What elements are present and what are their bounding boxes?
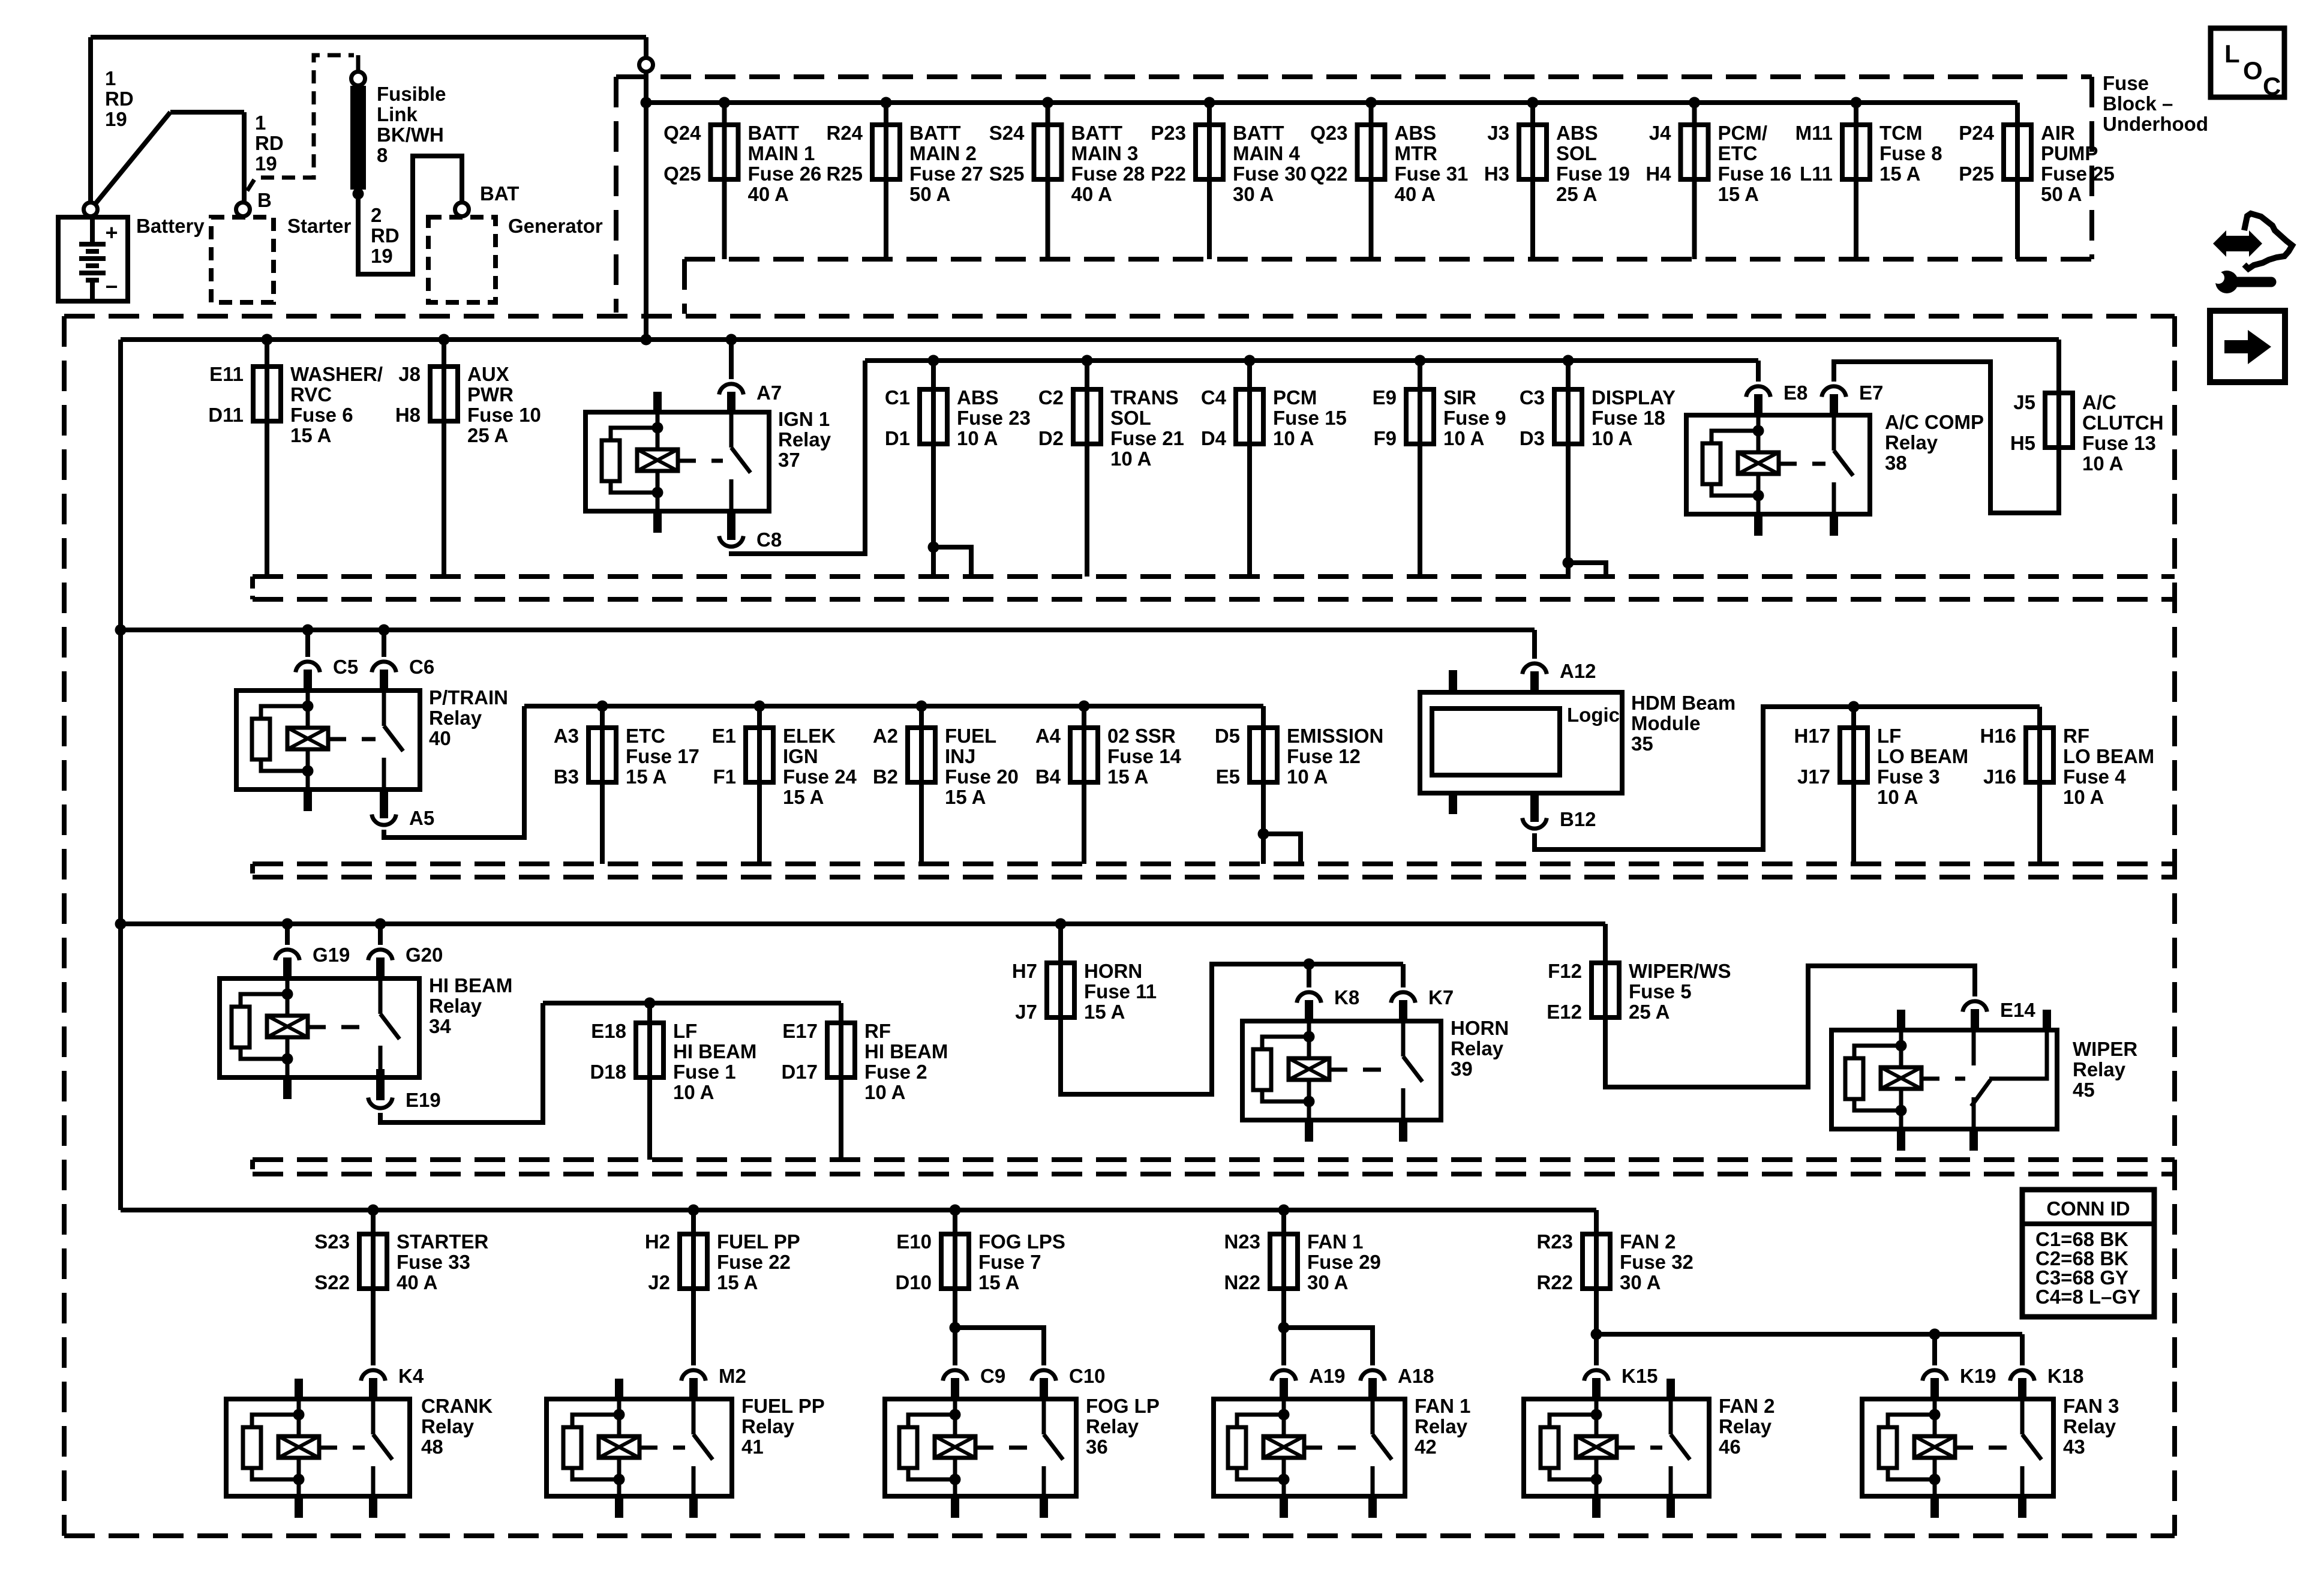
wire F18 output branch bbox=[1568, 563, 1606, 577]
svg-text:D1: D1 bbox=[885, 427, 910, 449]
svg-text:FAN 3: FAN 3 bbox=[2063, 1395, 2119, 1417]
svg-text:G20: G20 bbox=[406, 944, 443, 966]
svg-text:C3: C3 bbox=[1520, 386, 1545, 409]
wire to K7 bbox=[1401, 964, 1406, 987]
svg-text:S23: S23 bbox=[314, 1230, 350, 1253]
svg-text:1: 1 bbox=[255, 112, 266, 134]
svg-text:R24: R24 bbox=[826, 122, 863, 144]
relay K42 FAN 1 bbox=[1214, 1399, 1405, 1518]
pin K18 stub bbox=[2018, 1378, 2026, 1401]
pin FAN2 switch top stub bbox=[1667, 1379, 1675, 1401]
connector K7 bbox=[1391, 992, 1416, 1003]
wire fusible link top bbox=[356, 55, 361, 71]
wire to starter horizontal bbox=[170, 110, 244, 115]
svg-text:15 A: 15 A bbox=[717, 1271, 758, 1293]
svg-text:Fuse 28: Fuse 28 bbox=[1071, 163, 1145, 185]
svg-text:MAIN 3: MAIN 3 bbox=[1071, 142, 1139, 164]
svg-text:HI BEAM: HI BEAM bbox=[864, 1040, 948, 1062]
section separator row2/3 lower bbox=[253, 597, 2175, 602]
wire main feed riser bbox=[644, 37, 648, 340]
fuse block section1 bottom border bbox=[684, 257, 2092, 262]
wire F15 output bbox=[1247, 444, 1252, 577]
svg-text:Fuse 23: Fuse 23 bbox=[957, 407, 1031, 429]
svg-text:E8: E8 bbox=[1783, 382, 1807, 404]
svg-text:Battery: Battery bbox=[136, 215, 205, 237]
svg-text:Module: Module bbox=[1631, 712, 1700, 734]
svg-text:IGN: IGN bbox=[783, 745, 818, 767]
connector C6 bbox=[372, 662, 397, 673]
connector A18 bbox=[1361, 1370, 1385, 1381]
wire F5 to E14 bbox=[1605, 966, 1975, 1087]
fuse F11 HORN bbox=[1012, 924, 1157, 1023]
svg-text:Q24: Q24 bbox=[663, 122, 701, 144]
fuse F5 WIPER/WS bbox=[1547, 924, 1731, 1023]
svg-text:BATT: BATT bbox=[909, 122, 961, 144]
svg-text:N22: N22 bbox=[1224, 1271, 1260, 1293]
relay K37 IGN 1 bbox=[585, 392, 769, 533]
service icon: wrench bbox=[2207, 271, 2271, 293]
fuse F3 LF LO BEAM bbox=[1794, 701, 1968, 864]
svg-text:LO BEAM: LO BEAM bbox=[1877, 745, 1968, 767]
svg-text:E9: E9 bbox=[1373, 386, 1397, 409]
svg-text:H16: H16 bbox=[1980, 725, 2016, 747]
pin C9 stub bbox=[951, 1378, 959, 1401]
svg-text:R22: R22 bbox=[1536, 1271, 1573, 1293]
svg-text:46: 46 bbox=[1719, 1436, 1741, 1458]
svg-text:C8: C8 bbox=[756, 529, 782, 551]
svg-text:K8: K8 bbox=[1334, 986, 1359, 1008]
svg-text:D3: D3 bbox=[1520, 427, 1545, 449]
svg-text:Fuse 1: Fuse 1 bbox=[673, 1061, 736, 1083]
svg-text:P22: P22 bbox=[1151, 163, 1186, 185]
service icon: outline shape bbox=[2244, 214, 2292, 269]
svg-text:48: 48 bbox=[421, 1436, 443, 1458]
node battery + terminal bbox=[84, 203, 98, 217]
svg-text:10 A: 10 A bbox=[1443, 427, 1484, 449]
svg-text:Q25: Q25 bbox=[663, 163, 701, 185]
separator U-connector row3/4 bbox=[250, 864, 255, 877]
svg-text:H2: H2 bbox=[645, 1230, 670, 1253]
pin G20 stub bbox=[376, 957, 385, 981]
fuse F20 FUEL INJ bbox=[873, 701, 1019, 864]
junction F12 output bbox=[1258, 828, 1269, 840]
svg-text:19: 19 bbox=[371, 245, 393, 267]
svg-text:C10: C10 bbox=[1069, 1365, 1106, 1387]
wire F21 output bbox=[1085, 444, 1089, 577]
CONN ID table bbox=[2022, 1190, 2154, 1317]
wire to K18 bbox=[2020, 1334, 2025, 1365]
svg-text:H17: H17 bbox=[1794, 725, 1830, 747]
svg-text:15 A: 15 A bbox=[1718, 183, 1759, 205]
wire F7 down bbox=[953, 1289, 957, 1328]
wire to K15 bbox=[1594, 1334, 1599, 1365]
junction rail/bus3 bbox=[115, 625, 127, 636]
pin A19 stub bbox=[1280, 1378, 1288, 1401]
pin K4 stub bbox=[369, 1378, 377, 1401]
svg-text:40: 40 bbox=[429, 727, 451, 749]
pin E14 stub bbox=[1971, 1009, 1979, 1032]
svg-text:D18: D18 bbox=[590, 1061, 626, 1083]
wire left rail bbox=[118, 340, 123, 1210]
connector A7 bbox=[719, 384, 744, 395]
service icon: double arrow bbox=[2213, 230, 2262, 257]
svg-text:PCM/: PCM/ bbox=[1718, 122, 1768, 144]
svg-text:A/C: A/C bbox=[2082, 391, 2116, 413]
svg-text:BATT: BATT bbox=[1071, 122, 1123, 144]
svg-text:A7: A7 bbox=[756, 382, 782, 404]
svg-text:+: + bbox=[105, 220, 118, 245]
connector E8 bbox=[1746, 386, 1771, 397]
fuse F4 RF LO BEAM bbox=[1980, 707, 2154, 864]
wire to C9 bbox=[953, 1328, 957, 1365]
svg-text:Fuse 14: Fuse 14 bbox=[1107, 745, 1182, 767]
svg-text:MAIN 4: MAIN 4 bbox=[1233, 142, 1300, 164]
svg-text:−: − bbox=[105, 274, 118, 299]
wire F23 output branch bbox=[933, 547, 971, 577]
wire battery to starter diagonal bbox=[94, 112, 170, 205]
svg-text:10 A: 10 A bbox=[1592, 427, 1632, 449]
pin A18 stub bbox=[1368, 1378, 1377, 1401]
fuse F25 AIR PUMP bbox=[1959, 103, 2115, 259]
junction F23 output bbox=[928, 542, 939, 553]
svg-text:RD: RD bbox=[371, 224, 400, 247]
fuse F14 02 SSR bbox=[1035, 701, 1182, 864]
wire sub-bus3 bbox=[524, 704, 1263, 709]
separator U-connector row2/3 bbox=[250, 577, 255, 599]
pin C8 stub bbox=[727, 509, 735, 540]
svg-text:D2: D2 bbox=[1038, 427, 1064, 449]
svg-text:Relay: Relay bbox=[421, 1415, 475, 1437]
svg-text:Relay: Relay bbox=[2063, 1415, 2116, 1437]
svg-text:Fuse 8: Fuse 8 bbox=[1879, 142, 1942, 164]
pin E8 stub bbox=[1754, 394, 1762, 418]
svg-text:Block –: Block – bbox=[2103, 92, 2173, 115]
svg-text:B2: B2 bbox=[873, 766, 898, 788]
junction fan1 feed bbox=[1278, 1322, 1290, 1334]
svg-text:30 A: 30 A bbox=[1307, 1271, 1348, 1293]
svg-text:Fuse 7: Fuse 7 bbox=[978, 1251, 1041, 1273]
svg-text:BK/WH: BK/WH bbox=[377, 124, 444, 146]
wire E19 to hi-beam fuses bbox=[380, 1003, 543, 1122]
svg-text:ELEK: ELEK bbox=[783, 725, 836, 747]
svg-text:IGN 1: IGN 1 bbox=[778, 408, 830, 430]
svg-text:Fuse 18: Fuse 18 bbox=[1592, 407, 1665, 429]
pin B12 stub bbox=[1530, 791, 1539, 822]
svg-text:Fuse 27: Fuse 27 bbox=[909, 163, 983, 185]
wire A5 to sub-bus3 bbox=[384, 706, 524, 837]
junction bus3 x640 bbox=[379, 625, 390, 636]
junction F18 output bbox=[1563, 557, 1574, 569]
wire bus3 to C5 bbox=[305, 630, 310, 657]
svg-text:H5: H5 bbox=[2010, 432, 2035, 454]
svg-text:Generator: Generator bbox=[508, 215, 603, 237]
junction bus4 x479 bbox=[282, 918, 293, 930]
node generator BAT terminal bbox=[455, 203, 469, 217]
connector K8 bbox=[1297, 992, 1322, 1003]
wire F23 output bbox=[931, 444, 936, 577]
junction bus2 x1219 bbox=[726, 334, 737, 346]
svg-text:Fusible: Fusible bbox=[377, 83, 446, 105]
svg-text:2: 2 bbox=[371, 204, 382, 226]
fuse block section1 left border bbox=[614, 77, 618, 313]
svg-text:HI BEAM: HI BEAM bbox=[429, 974, 512, 996]
svg-text:K15: K15 bbox=[1622, 1365, 1658, 1387]
connector K18 bbox=[2010, 1370, 2035, 1381]
svg-text:SOL: SOL bbox=[1110, 407, 1151, 429]
svg-text:Relay: Relay bbox=[2073, 1058, 2126, 1080]
svg-text:43: 43 bbox=[2063, 1436, 2085, 1458]
svg-text:40 A: 40 A bbox=[748, 183, 789, 205]
svg-text:Fuse 24: Fuse 24 bbox=[783, 766, 857, 788]
svg-text:Fuse: Fuse bbox=[2103, 72, 2149, 94]
svg-text:A4: A4 bbox=[1035, 725, 1061, 747]
fuse block outer left border bbox=[62, 316, 67, 1536]
fuse F17 ETC bbox=[554, 701, 699, 864]
dashed wire to fusible link bbox=[247, 55, 354, 191]
pin A12 stub bbox=[1530, 671, 1539, 695]
svg-text:G19: G19 bbox=[313, 944, 350, 966]
wire F11 to horn relay bbox=[1061, 964, 1403, 1094]
svg-text:Fuse 10: Fuse 10 bbox=[467, 404, 541, 426]
pin A5 stub bbox=[380, 787, 388, 818]
svg-text:Fuse 32: Fuse 32 bbox=[1620, 1251, 1694, 1273]
svg-text:J16: J16 bbox=[1983, 766, 2016, 788]
svg-text:19: 19 bbox=[255, 152, 277, 175]
svg-text:FUEL PP: FUEL PP bbox=[717, 1230, 800, 1253]
svg-text:N23: N23 bbox=[1224, 1230, 1260, 1253]
svg-text:HI BEAM: HI BEAM bbox=[673, 1040, 756, 1062]
svg-text:PWR: PWR bbox=[467, 383, 514, 406]
wire F29 down bbox=[1281, 1289, 1286, 1328]
svg-text:45: 45 bbox=[2073, 1079, 2095, 1101]
svg-text:15 A: 15 A bbox=[626, 766, 666, 788]
connector A5 bbox=[372, 815, 397, 825]
svg-text:10 A: 10 A bbox=[2082, 452, 2123, 475]
svg-text:ETC: ETC bbox=[626, 725, 665, 747]
svg-text:36: 36 bbox=[1086, 1436, 1108, 1458]
svg-text:P24: P24 bbox=[1959, 122, 1994, 144]
fuse F23 ABS bbox=[885, 355, 1031, 450]
svg-text:R25: R25 bbox=[826, 163, 863, 185]
wire fog branch to C10 bbox=[955, 1328, 1044, 1365]
svg-text:WIPER/WS: WIPER/WS bbox=[1629, 960, 1731, 982]
svg-text:C4: C4 bbox=[1201, 386, 1227, 409]
svg-text:J7: J7 bbox=[1015, 1001, 1037, 1023]
svg-text:AUX: AUX bbox=[467, 363, 509, 385]
svg-text:H8: H8 bbox=[395, 404, 421, 426]
wire fan2/fan3 feed bbox=[1596, 1332, 2022, 1337]
fuse F22 FUEL PP bbox=[645, 1205, 800, 1294]
svg-text:A3: A3 bbox=[554, 725, 579, 747]
pin M2 stub bbox=[689, 1378, 698, 1401]
svg-text:Fuse 20: Fuse 20 bbox=[945, 766, 1019, 788]
svg-text:DISPLAY: DISPLAY bbox=[1592, 386, 1676, 409]
wire bus2 to A7 bbox=[729, 340, 734, 379]
connector C9 bbox=[943, 1370, 968, 1381]
svg-text:E10: E10 bbox=[896, 1230, 932, 1253]
wire bus4 to G19 bbox=[285, 924, 290, 945]
svg-text:Relay: Relay bbox=[1415, 1415, 1468, 1437]
svg-text:E5: E5 bbox=[1216, 766, 1240, 788]
wire F9 output bbox=[1418, 444, 1422, 577]
svg-text:FOG LPS: FOG LPS bbox=[978, 1230, 1065, 1253]
connector A19 bbox=[1272, 1370, 1296, 1381]
fuse F30 BATT MAIN 4 bbox=[1151, 97, 1307, 260]
svg-text:35: 35 bbox=[1631, 733, 1653, 755]
relay K41 FUEL PP bbox=[547, 1379, 732, 1518]
svg-text:Fuse 17: Fuse 17 bbox=[626, 745, 699, 767]
svg-text:10 A: 10 A bbox=[864, 1081, 905, 1103]
svg-text:C4=8 L–GY: C4=8 L–GY bbox=[2035, 1286, 2140, 1308]
svg-text:LO BEAM: LO BEAM bbox=[2063, 745, 2154, 767]
section separator row2/3 upper bbox=[253, 574, 2175, 579]
svg-text:41: 41 bbox=[741, 1436, 764, 1458]
svg-text:K7: K7 bbox=[1428, 986, 1454, 1008]
svg-text:30 A: 30 A bbox=[1233, 183, 1274, 205]
junction bus4 x1768 bbox=[1055, 918, 1067, 930]
svg-text:FAN 1: FAN 1 bbox=[1307, 1230, 1364, 1253]
LOC icon box bbox=[2211, 28, 2284, 100]
svg-text:S25: S25 bbox=[989, 163, 1025, 185]
section separator row4/5 upper bbox=[253, 1157, 2175, 1162]
svg-text:Fuse 9: Fuse 9 bbox=[1443, 407, 1506, 429]
svg-text:K4: K4 bbox=[398, 1365, 424, 1387]
junction fan3 feed bbox=[1929, 1329, 1941, 1340]
wire C8 to sub-bus2 bbox=[731, 361, 865, 554]
pin C5 stub bbox=[304, 670, 312, 693]
fuse F19 ABS SOL bbox=[1484, 97, 1630, 260]
relay K38 A/C COMP bbox=[1686, 415, 1870, 536]
svg-text:R23: R23 bbox=[1536, 1230, 1573, 1253]
module U35 HDM Beam Module bbox=[1420, 670, 1622, 814]
junction fog feed bbox=[950, 1322, 961, 1334]
svg-text:CONN ID: CONN ID bbox=[2046, 1197, 2130, 1220]
svg-text:Fuse 29: Fuse 29 bbox=[1307, 1251, 1381, 1273]
starter box (dashed) bbox=[211, 217, 274, 302]
svg-text:J17: J17 bbox=[1797, 766, 1830, 788]
svg-text:15 A: 15 A bbox=[783, 786, 824, 808]
fuse F12 EMISSION bbox=[1215, 706, 1384, 864]
pin K15 stub bbox=[1592, 1378, 1601, 1401]
connector G19 bbox=[275, 950, 300, 960]
node starter B terminal bbox=[236, 203, 250, 217]
svg-text:A12: A12 bbox=[1560, 660, 1596, 682]
node main feed connector bbox=[639, 58, 653, 72]
svg-text:BATT: BATT bbox=[1233, 122, 1284, 144]
svg-text:Relay: Relay bbox=[1885, 431, 1938, 454]
svg-text:Relay: Relay bbox=[1086, 1415, 1139, 1437]
fuse F21 TRANS SOL bbox=[1038, 355, 1184, 470]
svg-text:15 A: 15 A bbox=[1879, 163, 1920, 185]
svg-text:RF: RF bbox=[2063, 725, 2089, 747]
svg-text:Fuse 5: Fuse 5 bbox=[1629, 980, 1692, 1002]
wire bus3 to C6 bbox=[382, 630, 386, 657]
svg-text:ABS: ABS bbox=[957, 386, 999, 409]
arrow icon box bbox=[2210, 311, 2285, 382]
svg-text:39: 39 bbox=[1451, 1058, 1473, 1080]
svg-text:25 A: 25 A bbox=[1629, 1001, 1670, 1023]
wire to A19 bbox=[1281, 1328, 1286, 1365]
svg-text:15 A: 15 A bbox=[978, 1271, 1019, 1293]
svg-text:RD: RD bbox=[105, 88, 134, 110]
svg-text:M2: M2 bbox=[719, 1365, 746, 1387]
svg-text:F12: F12 bbox=[1548, 960, 1582, 982]
svg-text:10 A: 10 A bbox=[1877, 786, 1918, 808]
svg-text:D11: D11 bbox=[208, 404, 244, 426]
svg-text:ETC: ETC bbox=[1718, 142, 1758, 164]
svg-text:H3: H3 bbox=[1484, 163, 1509, 185]
svg-text:L: L bbox=[2224, 40, 2240, 68]
svg-text:D17: D17 bbox=[781, 1061, 818, 1083]
svg-text:CRANK: CRANK bbox=[421, 1395, 493, 1417]
fuse block outer bottom border bbox=[64, 1533, 2175, 1538]
svg-text:FOG LP: FOG LP bbox=[1086, 1395, 1160, 1417]
svg-text:Starter: Starter bbox=[287, 215, 352, 237]
svg-text:HORN: HORN bbox=[1084, 960, 1142, 982]
connector K4 bbox=[361, 1370, 386, 1381]
fuse F18 DISPLAY bbox=[1520, 355, 1676, 450]
junction riser/bus1 bbox=[641, 97, 652, 109]
fuse F26 BATT MAIN 1 bbox=[663, 97, 821, 260]
wire bus1 (battery feed) bbox=[646, 100, 2017, 105]
svg-text:MAIN 1: MAIN 1 bbox=[748, 142, 815, 164]
wire F18 output bbox=[1566, 444, 1571, 577]
svg-text:Relay: Relay bbox=[1719, 1415, 1772, 1437]
fuse F29 FAN 1 bbox=[1224, 1205, 1380, 1294]
connector C5 bbox=[296, 662, 320, 673]
wire E7 to A/C CLUTCH fuse bbox=[1834, 362, 2059, 513]
pin C6 stub bbox=[380, 670, 388, 693]
svg-text:Q23: Q23 bbox=[1310, 122, 1347, 144]
fuse F9 SIR bbox=[1373, 355, 1506, 450]
wire sub-bus4 bbox=[543, 1001, 841, 1005]
fusible link element bbox=[350, 86, 366, 190]
svg-text:A/C COMP: A/C COMP bbox=[1885, 411, 1984, 433]
junction fan2 feed bbox=[1591, 1329, 1602, 1340]
svg-text:FUEL PP: FUEL PP bbox=[741, 1395, 825, 1417]
svg-text:Fuse 31: Fuse 31 bbox=[1395, 163, 1469, 185]
svg-text:Fuse 4: Fuse 4 bbox=[2063, 766, 2126, 788]
svg-text:E14: E14 bbox=[2000, 999, 2035, 1021]
svg-text:B: B bbox=[257, 189, 272, 211]
svg-text:E19: E19 bbox=[406, 1089, 441, 1111]
pin K19 stub bbox=[1930, 1378, 1939, 1401]
svg-text:A18: A18 bbox=[1398, 1365, 1434, 1387]
junction fusible link bottom bbox=[353, 188, 364, 200]
fuse F16 PCM/ETC bbox=[1646, 97, 1791, 260]
svg-text:Fuse 11: Fuse 11 bbox=[1084, 980, 1157, 1002]
pin E7 stub bbox=[1830, 394, 1838, 418]
pin C10 stub bbox=[1040, 1378, 1048, 1401]
svg-text:Logic: Logic bbox=[1567, 704, 1620, 726]
svg-text:FAN 1: FAN 1 bbox=[1415, 1395, 1471, 1417]
svg-text:RF: RF bbox=[864, 1020, 891, 1042]
svg-text:P/TRAIN: P/TRAIN bbox=[429, 686, 508, 709]
svg-text:ABS: ABS bbox=[1395, 122, 1437, 144]
connector G20 bbox=[368, 950, 393, 960]
svg-text:A5: A5 bbox=[409, 807, 434, 829]
svg-text:FAN 2: FAN 2 bbox=[1719, 1395, 1775, 1417]
connector K15 bbox=[1584, 1370, 1609, 1381]
svg-text:MTR: MTR bbox=[1395, 142, 1438, 164]
junction bus3 x513 bbox=[302, 625, 314, 636]
svg-text:WIPER: WIPER bbox=[2073, 1038, 2137, 1060]
svg-text:10 A: 10 A bbox=[673, 1081, 714, 1103]
svg-text:LF: LF bbox=[673, 1020, 697, 1042]
svg-text:O: O bbox=[2243, 56, 2263, 85]
svg-text:50 A: 50 A bbox=[2041, 183, 2082, 205]
svg-text:BAT: BAT bbox=[480, 182, 519, 205]
